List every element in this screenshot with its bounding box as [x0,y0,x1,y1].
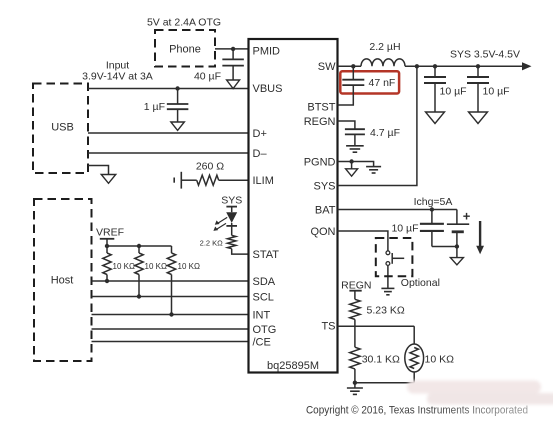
svg-text:1 µF: 1 µF [144,101,165,113]
svg-text:SW: SW [318,61,336,73]
svg-text:PMID: PMID [253,45,281,57]
svg-text:PGND: PGND [304,156,336,168]
svg-text:47 nF: 47 nF [369,77,396,89]
svg-text:Optional: Optional [401,277,440,289]
svg-text:SYS: SYS [313,180,335,192]
svg-text:10 µF: 10 µF [440,86,467,98]
svg-text:Ichg=5A: Ichg=5A [414,196,453,208]
svg-text:10 µF: 10 µF [483,86,510,98]
svg-text:INT: INT [253,309,271,321]
svg-text:D–: D– [253,148,268,160]
svg-text:D+: D+ [253,128,267,140]
svg-text:SCL: SCL [253,291,274,303]
svg-text:VBUS: VBUS [253,83,283,95]
svg-text:10 KΩ: 10 KΩ [145,262,167,271]
svg-text:5V at 2.4A OTG: 5V at 2.4A OTG [147,17,221,29]
svg-text:Host: Host [51,275,74,287]
svg-text:SYS: SYS [221,194,242,206]
svg-text:ILIM: ILIM [253,175,274,187]
svg-text:4.7 µF: 4.7 µF [370,127,400,139]
svg-text:2.2 µH: 2.2 µH [369,41,400,53]
svg-text:5.23 KΩ: 5.23 KΩ [367,304,405,316]
svg-text:Phone: Phone [169,44,201,56]
svg-text:QON: QON [310,226,335,238]
svg-text:10 µF: 10 µF [391,223,418,235]
svg-text:30.1 KΩ: 30.1 KΩ [362,354,400,366]
svg-text:3.9V-14V at 3A: 3.9V-14V at 3A [82,71,153,83]
svg-text:REGN: REGN [341,279,371,291]
svg-text:VREF: VREF [96,227,124,239]
svg-text:USB: USB [51,122,74,134]
svg-text:REGN: REGN [304,116,336,128]
svg-text:SDA: SDA [253,276,276,288]
svg-text:10 KΩ: 10 KΩ [113,262,135,271]
svg-text:SYS 3.5V-4.5V: SYS 3.5V-4.5V [450,49,520,61]
svg-text:BTST: BTST [307,101,335,113]
svg-text:BAT: BAT [315,204,336,216]
svg-text:TS: TS [321,321,335,333]
svg-text:10 KΩ: 10 KΩ [178,262,200,271]
svg-text:2.2 KΩ: 2.2 KΩ [200,238,224,247]
svg-text:Copyright © 2016, Texas Instru: Copyright © 2016, Texas Instruments Inco… [306,405,528,417]
svg-text:10 KΩ: 10 KΩ [425,354,455,366]
svg-text:STAT: STAT [253,249,280,261]
svg-text:40 µF: 40 µF [194,71,221,83]
svg-text:+: + [463,209,471,224]
svg-text:bq25895M: bq25895M [267,360,319,372]
svg-text:/CE: /CE [253,336,271,348]
svg-text:260 Ω: 260 Ω [196,161,224,173]
svg-text:OTG: OTG [253,324,277,336]
